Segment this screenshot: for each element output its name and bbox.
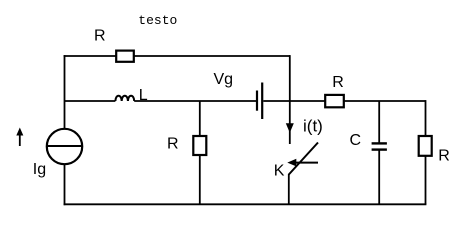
wire left vertical upper (64, 55, 66, 129)
wire top right segment (134, 55, 290, 57)
svg-text:K: K (274, 163, 285, 180)
resistor R4 (right, vertical box) (419, 136, 432, 156)
capacitor branch upper wire (378, 101, 380, 143)
capacitor branch lower wire (378, 150, 380, 205)
svg-text:testo: testo (138, 13, 177, 28)
wire branch R3 lower (199, 155, 201, 204)
current arrow i(t) head (286, 123, 294, 133)
switch K blade (289, 143, 318, 175)
svg-text:Ig: Ig (33, 161, 46, 178)
wire branch R3 upper (199, 101, 201, 136)
resistor R2 (horizontal box, right of Vg) (325, 95, 344, 107)
svg-text:i(t): i(t) (303, 117, 323, 136)
wire resistor R2 to right corner (344, 100, 426, 102)
wire right vertical lower (425, 156, 427, 205)
wire top left segment (64, 55, 116, 57)
current arrow Ig head (16, 128, 23, 136)
voltage source Vg long plate (261, 83, 263, 120)
current source Ig chord (47, 145, 82, 147)
resistor R1 (top, horizontal box) (116, 51, 134, 62)
inductor L (115, 96, 134, 101)
svg-text:R: R (438, 147, 450, 164)
wire right vertical upper (425, 100, 427, 136)
capacitor C top plate (372, 142, 387, 144)
svg-text:R: R (332, 74, 344, 91)
svg-text:R: R (94, 28, 106, 45)
switch K arrow line (295, 162, 318, 164)
wire switch pivot to bottom (288, 174, 290, 204)
current source Ig circle (47, 129, 82, 164)
capacitor C bottom plate (372, 148, 387, 150)
wire middle left segment (65, 100, 116, 102)
svg-text:C: C (350, 132, 362, 149)
wire right drop of top loop (289, 55, 291, 101)
svg-text:L: L (139, 87, 148, 104)
wire left vertical lower (64, 165, 66, 206)
wire battery to resistor R2 (263, 100, 325, 102)
wire i(t) branch (289, 101, 291, 144)
switch K arrow head (287, 159, 296, 167)
current arrow Ig stem (19, 134, 21, 146)
wire middle to battery (134, 100, 256, 102)
svg-text:R: R (167, 136, 179, 153)
voltage source Vg short plate (256, 91, 258, 111)
resistor R3 (middle, vertical box) (193, 136, 206, 155)
svg-text:Vg: Vg (214, 71, 234, 88)
wire bottom rail (64, 203, 427, 205)
